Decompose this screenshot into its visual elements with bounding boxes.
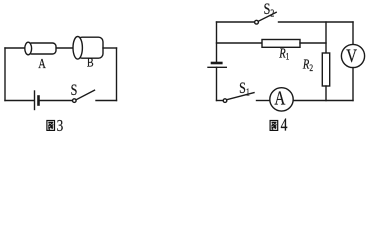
svg-text:4: 4	[281, 116, 288, 135]
svg-text:S: S	[71, 83, 78, 100]
svg-text:A: A	[38, 56, 46, 72]
svg-text:3: 3	[57, 117, 64, 135]
svg-text:V: V	[346, 45, 357, 66]
svg-text:A: A	[274, 87, 285, 109]
svg-text:B: B	[87, 55, 94, 69]
